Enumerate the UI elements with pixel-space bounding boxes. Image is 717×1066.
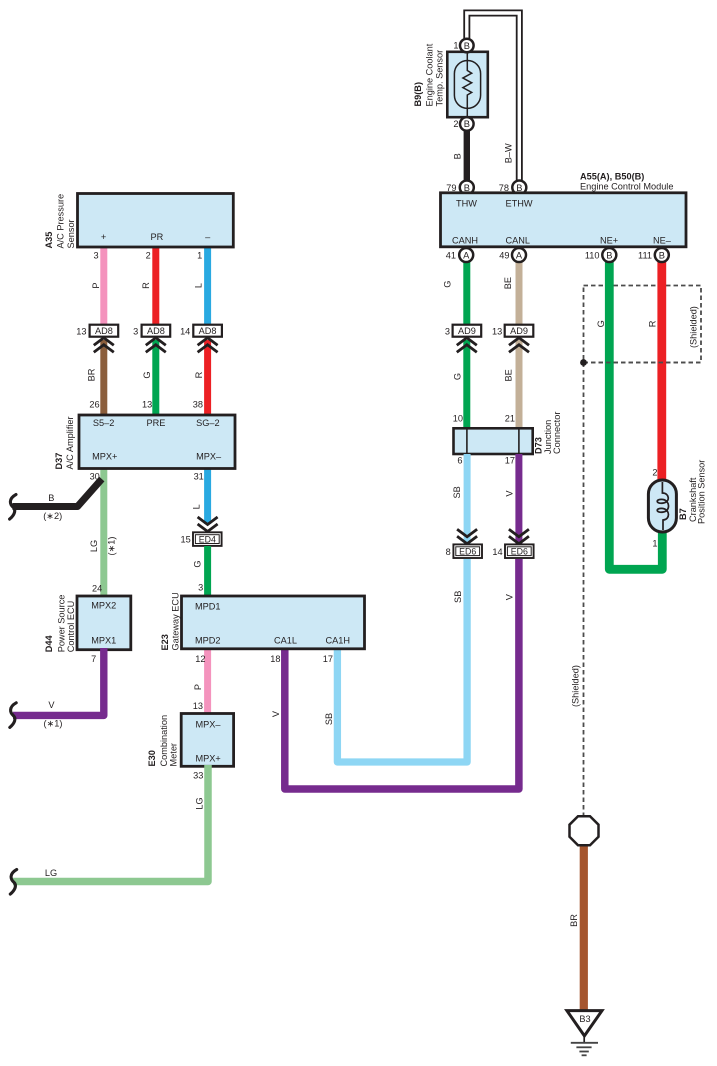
crankshaft position sensor B7 body bbox=[648, 480, 676, 532]
wire BE from AD9 to D73 pin 21 bbox=[516, 340, 523, 429]
svg-text:PRE: PRE bbox=[147, 418, 166, 428]
svg-text:V: V bbox=[271, 710, 281, 717]
svg-text:G: G bbox=[453, 373, 463, 380]
wire LG from D37 pin 30 to D44 pin 24 bbox=[100, 466, 107, 597]
connector ED6 pin 8 bbox=[453, 544, 482, 558]
wire L from D37 pin 31 to ED4 bbox=[204, 466, 211, 524]
svg-text:1: 1 bbox=[197, 250, 202, 260]
svg-text:MPD2: MPD2 bbox=[195, 636, 221, 646]
svg-text:B–W: B–W bbox=[504, 143, 514, 163]
connector AD8 pin 3 bbox=[142, 325, 171, 337]
chevron arrows into ED6 connectors bbox=[457, 529, 477, 544]
svg-text:33: 33 bbox=[193, 771, 203, 781]
svg-text:D44: D44 bbox=[44, 635, 54, 653]
svg-text:(∗2): (∗2) bbox=[43, 511, 62, 521]
svg-text:ED4: ED4 bbox=[199, 534, 216, 544]
svg-text:(∗1): (∗1) bbox=[44, 719, 63, 729]
wire SB from E23 CA1H to ED6 pin 8 (loop) bbox=[337, 559, 467, 762]
svg-text:14: 14 bbox=[492, 547, 502, 557]
wire BR from octagon to ground B3 bbox=[580, 847, 588, 1011]
svg-text:14: 14 bbox=[180, 327, 190, 337]
engine control module A55(A), B50(B) box bbox=[441, 193, 687, 247]
svg-text:NE+: NE+ bbox=[600, 236, 618, 246]
svg-text:2: 2 bbox=[146, 250, 151, 260]
svg-text:Engine Control Module: Engine Control Module bbox=[580, 181, 673, 191]
svg-text:AD8: AD8 bbox=[95, 326, 113, 336]
svg-text:(Shielded): (Shielded) bbox=[689, 306, 699, 348]
svg-text:MPX–: MPX– bbox=[196, 452, 222, 462]
svg-text:Engine Coolant: Engine Coolant bbox=[425, 43, 435, 106]
svg-text:G: G bbox=[192, 560, 202, 567]
svg-text:38: 38 bbox=[193, 399, 203, 409]
wire BR from AD8 to D37 pin 26 bbox=[100, 340, 107, 417]
svg-text:CA1L: CA1L bbox=[274, 636, 297, 646]
svg-text:3: 3 bbox=[133, 327, 138, 337]
svg-text:B3: B3 bbox=[579, 1014, 590, 1024]
svg-text:BE: BE bbox=[503, 277, 513, 289]
svg-text:41: 41 bbox=[446, 251, 456, 261]
wire R from AD8 to D37 pin 38 bbox=[204, 340, 211, 417]
svg-text:Gateway ECU: Gateway ECU bbox=[170, 592, 180, 650]
connector AD8 pin 13 bbox=[90, 325, 119, 337]
svg-text:G: G bbox=[142, 371, 152, 378]
svg-text:R: R bbox=[648, 320, 658, 327]
chevron arrows into AD8 connectors bbox=[94, 338, 114, 353]
svg-text:3: 3 bbox=[198, 583, 203, 593]
wire L from A35 pin 1 to AD8 bbox=[204, 245, 211, 326]
svg-text:6: 6 bbox=[457, 456, 462, 466]
junction connector D73 box bbox=[454, 428, 533, 454]
svg-text:LG: LG bbox=[194, 797, 204, 809]
svg-text:B: B bbox=[516, 183, 522, 193]
connector ED6 pin 14 bbox=[505, 544, 534, 558]
chevron arrows into AD9 connectors bbox=[457, 338, 477, 353]
ECM pin 110 circle bbox=[602, 248, 616, 262]
svg-text:ED6: ED6 bbox=[459, 546, 476, 556]
shielded cable dashed outline bbox=[584, 286, 702, 363]
ECM pin 41 circle bbox=[459, 248, 473, 262]
svg-text:(Shielded): (Shielded) bbox=[570, 665, 580, 707]
svg-text:B9(B): B9(B) bbox=[413, 82, 423, 107]
shield junction node bbox=[580, 359, 587, 366]
B9 pin 2 circle bbox=[460, 117, 474, 131]
svg-text:B: B bbox=[659, 250, 665, 260]
svg-text:A55(A), B50(B): A55(A), B50(B) bbox=[580, 171, 644, 181]
svg-text:1: 1 bbox=[652, 539, 657, 549]
wire B branch (*2) from D37 pin 30 bbox=[13, 479, 102, 507]
svg-text:A/C Amplifier: A/C Amplifier bbox=[65, 416, 75, 469]
svg-text:LG: LG bbox=[89, 540, 99, 552]
svg-text:MPX+: MPX+ bbox=[92, 452, 117, 462]
wire R from ECM pin 111 NE- to B7 pin 2 bbox=[657, 261, 666, 481]
svg-text:AD8: AD8 bbox=[147, 326, 165, 336]
svg-text:SG–2: SG–2 bbox=[196, 418, 220, 428]
svg-text:L: L bbox=[194, 283, 204, 288]
wire LG from E30 pin 33 to left continuation bbox=[13, 765, 208, 882]
svg-text:MPX–: MPX– bbox=[196, 720, 222, 730]
svg-text:V: V bbox=[504, 593, 514, 600]
svg-text:ED6: ED6 bbox=[511, 546, 528, 556]
svg-text:13: 13 bbox=[193, 701, 203, 711]
wire R from A35 pin 2 to AD8 bbox=[152, 245, 159, 326]
ground symbol B3 bbox=[567, 1011, 602, 1036]
connector AD9 pin 13 bbox=[505, 325, 534, 337]
svg-text:A/C Pressure: A/C Pressure bbox=[56, 194, 66, 249]
svg-text:17: 17 bbox=[505, 456, 515, 466]
svg-text:CA1H: CA1H bbox=[326, 636, 351, 646]
wire SB from D73 pin 6 to ED6 bbox=[464, 454, 471, 545]
svg-text:B: B bbox=[464, 183, 470, 193]
svg-text:24: 24 bbox=[92, 584, 102, 594]
svg-text:Sensor: Sensor bbox=[66, 219, 76, 248]
svg-text:31: 31 bbox=[194, 472, 204, 482]
svg-text:V: V bbox=[505, 490, 515, 497]
svg-text:SB: SB bbox=[453, 591, 463, 603]
svg-text:AD9: AD9 bbox=[458, 326, 476, 336]
svg-text:111: 111 bbox=[638, 251, 652, 261]
pickup coil symbol inside B7 bbox=[657, 482, 668, 530]
ECM pin 111 circle bbox=[655, 248, 669, 262]
svg-text:Position Sensor: Position Sensor bbox=[697, 460, 707, 524]
svg-text:B: B bbox=[464, 119, 470, 129]
wire P from E23 MPD2 to E30 pin 13 bbox=[204, 647, 211, 715]
svg-text:2: 2 bbox=[652, 468, 657, 478]
continuation squiggle on B wire bbox=[10, 495, 16, 520]
svg-text:30: 30 bbox=[90, 472, 100, 482]
svg-text:D37: D37 bbox=[54, 453, 64, 470]
chevron arrow into ED4 connector bbox=[198, 517, 218, 532]
svg-text:13: 13 bbox=[76, 327, 86, 337]
svg-text:LG: LG bbox=[45, 868, 57, 878]
svg-text:17: 17 bbox=[323, 654, 333, 664]
svg-text:(∗1): (∗1) bbox=[107, 537, 117, 556]
svg-text:2: 2 bbox=[453, 119, 458, 129]
svg-text:CANH: CANH bbox=[452, 236, 478, 246]
wire V (*1) from D44 pin 7 bbox=[13, 648, 104, 715]
svg-text:R: R bbox=[141, 282, 151, 289]
wire B from B9 pin2 to ECM pin 79 bbox=[464, 130, 470, 182]
svg-text:7: 7 bbox=[91, 654, 96, 664]
svg-text:MPX+: MPX+ bbox=[196, 754, 221, 764]
svg-text:L: L bbox=[192, 504, 202, 509]
svg-text:15: 15 bbox=[180, 534, 190, 544]
svg-text:Temp. Sensor: Temp. Sensor bbox=[434, 50, 444, 107]
shield termination octagon bbox=[570, 816, 599, 845]
ECM pin 79 circle bbox=[460, 181, 474, 195]
svg-text:SB: SB bbox=[324, 713, 334, 725]
svg-text:1: 1 bbox=[453, 41, 458, 51]
svg-text:BR: BR bbox=[87, 368, 97, 381]
svg-text:G: G bbox=[596, 320, 606, 327]
gateway ECU E23 box bbox=[182, 596, 365, 649]
svg-text:MPX1: MPX1 bbox=[91, 635, 116, 645]
svg-text:B: B bbox=[453, 153, 463, 159]
svg-text:ETHW: ETHW bbox=[506, 199, 533, 209]
wire G from AD8 to D37 pin 13 bbox=[152, 340, 159, 417]
svg-text:A: A bbox=[516, 250, 523, 260]
wire G from ECM pin 41 CANH to AD9 bbox=[463, 261, 470, 326]
svg-text:26: 26 bbox=[89, 399, 99, 409]
wire P from A35 pin 3 to AD8 bbox=[100, 245, 107, 326]
svg-text:BR: BR bbox=[569, 914, 579, 927]
svg-text:G: G bbox=[443, 281, 453, 288]
svg-text:8: 8 bbox=[446, 547, 451, 557]
shield drain dashed line down to octagon bbox=[583, 363, 585, 816]
svg-text:Connector: Connector bbox=[552, 412, 562, 454]
svg-text:18: 18 bbox=[270, 654, 280, 664]
ECM pin 49 circle bbox=[512, 248, 526, 262]
combination meter E30 box bbox=[181, 714, 233, 767]
svg-text:AD9: AD9 bbox=[510, 326, 528, 336]
svg-text:PR: PR bbox=[151, 232, 164, 242]
svg-text:E30: E30 bbox=[147, 750, 157, 766]
svg-text:Control ECU: Control ECU bbox=[66, 601, 76, 653]
svg-text:A35: A35 bbox=[44, 232, 54, 249]
power source control ECU D44 box bbox=[77, 596, 131, 650]
connector ED4 pin 15 bbox=[193, 532, 222, 546]
svg-text:THW: THW bbox=[456, 199, 477, 209]
svg-text:AD8: AD8 bbox=[199, 326, 217, 336]
svg-text:–: – bbox=[205, 232, 211, 242]
thermistor symbol inside B9 bbox=[454, 61, 480, 109]
svg-text:P: P bbox=[91, 282, 101, 288]
wire B-W loop from B9 pin1 to ECM pin 78 bbox=[467, 13, 520, 181]
svg-text:B: B bbox=[606, 250, 612, 260]
A/C pressure sensor A35 box bbox=[78, 194, 234, 248]
engine coolant temp sensor B9(B) body bbox=[447, 52, 488, 117]
svg-text:NE–: NE– bbox=[653, 236, 672, 246]
wire G from ED4 to E23 pin 3 bbox=[204, 546, 211, 598]
svg-text:12: 12 bbox=[195, 654, 205, 664]
svg-text:D73: D73 bbox=[534, 437, 544, 454]
svg-text:MPD1: MPD1 bbox=[195, 601, 221, 611]
svg-text:B7: B7 bbox=[678, 508, 688, 520]
svg-text:3: 3 bbox=[445, 327, 450, 337]
B9 pin 1 circle bbox=[460, 39, 474, 53]
svg-text:49: 49 bbox=[499, 251, 509, 261]
continuation squiggle on V wire bbox=[10, 703, 16, 728]
wire V from E23 CA1L to ED6 pin 14 (loop) bbox=[285, 559, 519, 789]
shielded box bottom edge over wires bbox=[584, 362, 702, 364]
svg-text:21: 21 bbox=[505, 414, 515, 424]
continuation squiggle on LG wire bbox=[10, 870, 16, 895]
svg-text:P: P bbox=[193, 684, 203, 690]
svg-text:SB: SB bbox=[452, 486, 462, 498]
ECM pin 78 circle bbox=[512, 181, 526, 195]
svg-text:110: 110 bbox=[585, 251, 600, 261]
wire V from D73 pin 17 to ED6 bbox=[515, 454, 522, 545]
svg-text:E23: E23 bbox=[160, 634, 170, 650]
svg-text:B: B bbox=[48, 493, 54, 503]
svg-text:13: 13 bbox=[142, 399, 152, 409]
svg-text:A: A bbox=[463, 250, 470, 260]
svg-text:10: 10 bbox=[453, 414, 463, 424]
svg-text:13: 13 bbox=[492, 327, 502, 337]
svg-text:BE: BE bbox=[504, 369, 514, 381]
svg-text:R: R bbox=[194, 371, 204, 378]
svg-text:S5–2: S5–2 bbox=[93, 418, 114, 428]
svg-text:V: V bbox=[48, 700, 55, 710]
svg-text:Meter: Meter bbox=[169, 743, 179, 767]
svg-text:+: + bbox=[101, 232, 106, 242]
connector AD9 pin 3 bbox=[453, 325, 482, 337]
svg-text:B: B bbox=[464, 41, 470, 51]
svg-text:3: 3 bbox=[93, 250, 98, 260]
wire G from AD9 to D73 pin 10 bbox=[463, 340, 470, 429]
A/C amplifier D37 box bbox=[79, 415, 235, 469]
svg-text:MPX2: MPX2 bbox=[91, 601, 116, 611]
svg-text:Power Source: Power Source bbox=[56, 595, 66, 653]
wire G from ECM pin 110 NE+ to B7 pin 1 bbox=[609, 261, 662, 569]
connector AD8 pin 14 bbox=[193, 325, 222, 337]
svg-text:CANL: CANL bbox=[506, 236, 531, 246]
wire BE from ECM pin 49 CANL to AD9 bbox=[516, 261, 523, 326]
